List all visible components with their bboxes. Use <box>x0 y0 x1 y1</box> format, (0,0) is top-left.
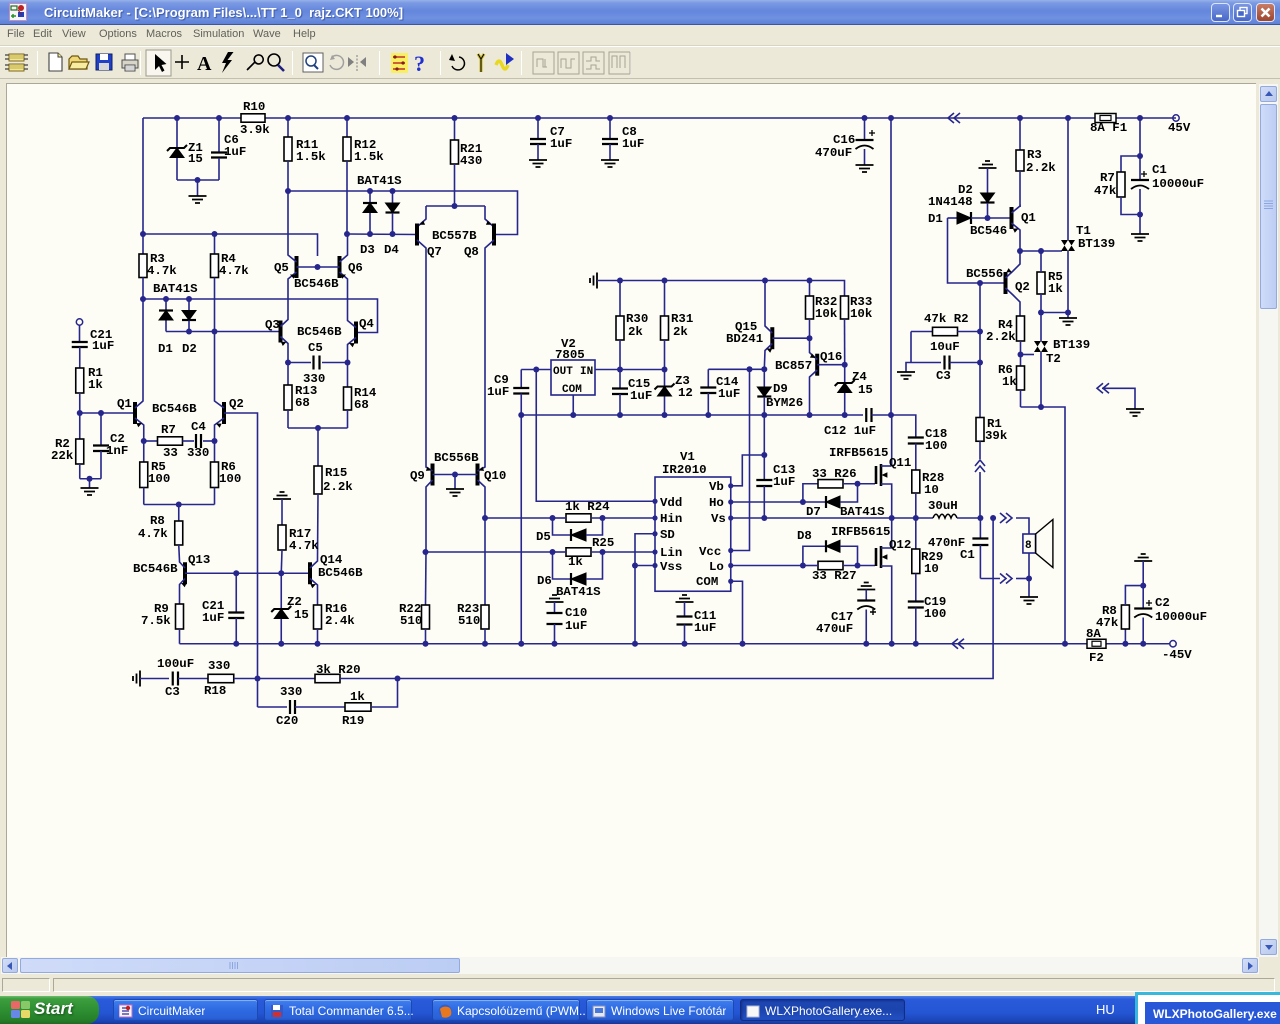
open folder <box>69 56 89 69</box>
node T2 gate <box>1018 352 1024 358</box>
wire +45V top rail <box>143 117 241 119</box>
resistor R8 4.7k <box>178 505 180 522</box>
wire Z1-C6 bottom node <box>177 179 219 181</box>
transistor Q2 BC556 right <box>980 282 1006 284</box>
capacitor C2 1nF <box>100 413 102 445</box>
wire Hin line <box>485 517 553 519</box>
capacitor C1 10000uF <box>1141 171 1147 177</box>
transistor Q4 BC546B <box>354 322 358 344</box>
capacitor C15 1uF <box>619 370 621 389</box>
resistor R14 68 <box>347 363 349 388</box>
resistor R21 430 <box>454 118 456 140</box>
capacitor C14 1uF <box>708 368 764 370</box>
ground above C2 <box>1134 554 1152 561</box>
capacitor C1 470nF output filter <box>979 518 981 539</box>
ground C3 input <box>133 671 140 687</box>
transistor Q3 BC546B <box>279 321 283 343</box>
wire C9 column down <box>520 415 522 644</box>
diode D9 BYM26 <box>763 369 765 387</box>
capacitor C11 1uF <box>676 595 694 602</box>
speaker 8 ohm <box>1023 534 1036 553</box>
resistor R29 10 <box>915 518 917 549</box>
ground C1 <box>1139 215 1141 235</box>
zener Z2 15 <box>280 573 282 609</box>
wire speaker bottom link <box>980 578 1000 580</box>
resistor R23 510 <box>484 518 486 605</box>
wire V2 COM <box>572 395 574 415</box>
resistor R26 33 <box>803 484 818 502</box>
wire rail y=234 right segment <box>347 233 417 236</box>
capacitor C6 1uF <box>218 118 220 152</box>
terminal -45V <box>1170 641 1176 647</box>
resistor R7 47k <box>1139 118 1141 156</box>
lightning <box>222 52 234 73</box>
wire Q9/Q10 base ground <box>433 474 478 476</box>
4 waveform buttons (grayed) <box>533 52 630 74</box>
ground below Z1/C6 <box>197 180 199 196</box>
transistor Q13 BC546B <box>183 562 187 584</box>
wire V2 OUT line <box>521 369 551 371</box>
zener Z1 15 <box>176 118 178 148</box>
new doc <box>49 53 62 71</box>
wire Q2 base loop <box>948 218 981 283</box>
resistor R9 7.5k <box>176 604 184 629</box>
IC V1 IR2010 <box>655 477 731 591</box>
resistor R31 2k <box>664 281 666 317</box>
inductor 30uH <box>933 514 957 518</box>
wire +45V feed to Q11 drain <box>890 118 892 415</box>
diode D2 1N4148 <box>987 168 989 193</box>
resistor R10 3.9k <box>241 114 265 122</box>
resistor R7 33 emitter <box>144 440 158 442</box>
transistor Q1 BC546B input <box>133 402 137 424</box>
diode D6 BAT41S <box>553 552 572 579</box>
wire link marker on -45V rail <box>952 639 964 649</box>
wire Ho line <box>731 501 803 503</box>
print <box>122 54 138 71</box>
browse chip icon <box>5 54 28 71</box>
diode D3 BAT41S <box>369 191 371 203</box>
transistor Q14 BC546B <box>308 562 312 584</box>
capacitor C13 1uF bootstrap <box>763 415 765 455</box>
wire Vcc feed from floating supply <box>731 369 750 550</box>
resistor R4 2.2k right <box>1019 315 1022 317</box>
wire Vb bootstrap <box>731 455 765 486</box>
wire V2 IN line <box>595 369 665 371</box>
resistor R1 1k <box>76 368 84 393</box>
ground input network <box>80 478 101 480</box>
resistor R33 10k <box>841 296 849 319</box>
capacitor C17 470uF <box>857 583 875 590</box>
capacitor C16 470uF electrolytic <box>864 118 866 140</box>
transistor Q16 BC857 <box>809 338 811 350</box>
ground above D2 right <box>979 161 997 168</box>
capacitor C4 330 <box>183 440 195 442</box>
wire Lo line <box>731 565 803 567</box>
wire R5 T1 gnd <box>1041 312 1068 314</box>
resistor R6 1k right <box>1020 355 1022 367</box>
capacitor C8 1uF <box>609 118 611 139</box>
run wave <box>496 61 508 69</box>
wire SD to Vss <box>635 534 655 566</box>
terminal input <box>76 319 82 325</box>
svg-text:A: A <box>197 53 212 75</box>
mirror <box>356 55 358 71</box>
transistor Q6 BC546B <box>338 256 342 278</box>
diode D4 BAT41S <box>392 191 394 203</box>
wire Vdd feed <box>536 370 655 502</box>
resistor R28 10 <box>915 444 917 471</box>
wire Q1 emitter node <box>1017 248 1023 254</box>
resistor R16 2.4k <box>314 605 322 629</box>
transistor Q1 BC546 right <box>988 217 1012 219</box>
transistor Q9 BC556B <box>431 464 435 486</box>
diode D1 BAT41S <box>165 299 167 311</box>
transistor Q2 BC546B input <box>222 402 226 424</box>
wire x=143 to Q1 collector <box>142 299 144 400</box>
resistor R5 100 <box>143 441 145 462</box>
resistor R5 1k right <box>1037 272 1045 294</box>
wire Q7/Q8 emitter rail <box>426 205 485 207</box>
resistor R3 2.2k right <box>1019 118 1021 150</box>
diode D5 BAT41S <box>553 518 572 535</box>
magnifier <box>268 54 280 66</box>
resistor R32 10k <box>809 281 811 297</box>
triac T1 BT139 <box>1067 118 1069 240</box>
wire COM pin <box>731 581 743 644</box>
wire T2 output to -45V rail <box>1021 407 1066 644</box>
node Q1 base <box>80 412 135 414</box>
wire Q3 base line y=331.5 <box>166 331 281 333</box>
zener Z4 15 <box>844 365 846 383</box>
link ground stub right <box>1097 383 1109 393</box>
capacitor C20 330 <box>257 679 259 708</box>
transistor Q15 BD241 <box>764 281 766 326</box>
transistor Q5 BC546B <box>295 256 299 278</box>
resistor R8 47k bottom <box>1124 629 1126 644</box>
wire Vs switch node line <box>731 517 933 519</box>
wire bias rail y=299 <box>143 299 378 333</box>
wire 0V rail <box>597 281 845 297</box>
resistor R27 33 <box>818 561 843 569</box>
resistor R17 4.7k <box>281 499 283 525</box>
wire Q13 Q14 base line <box>185 572 310 574</box>
capacitor C19 100 snubber <box>915 574 917 602</box>
capacitor C2 10000uF <box>1142 561 1144 586</box>
selection arrow (pressed) <box>146 50 171 76</box>
plus <box>175 55 189 69</box>
wire R1 39k column <box>979 283 981 441</box>
terminal 45V <box>1173 115 1179 121</box>
diode D1 1N4148 <box>948 217 958 219</box>
resistor R15 2.2k <box>317 428 319 466</box>
undo <box>452 57 464 70</box>
svg-text:?: ? <box>414 51 425 76</box>
ground above R17 <box>273 492 291 499</box>
resistor R6 100 <box>214 441 216 462</box>
wire rail y=191 <box>288 191 518 235</box>
wrench yellow <box>478 54 484 72</box>
wire Vss line <box>635 565 655 567</box>
resistor R25 1k <box>566 548 591 556</box>
transistor Q8 BC557B <box>492 224 496 246</box>
wire left bus x=143 <box>142 118 144 254</box>
capacitor C7 1uF <box>537 118 539 139</box>
capacitor C10 1uF <box>546 595 564 602</box>
resistor R22 510 <box>425 552 428 605</box>
capacitor C12 1uF <box>866 408 871 422</box>
probe <box>247 55 263 70</box>
diode D2 BAT41S <box>188 299 190 311</box>
capacitor C21 1uF bias <box>235 573 237 612</box>
resistor R19 1k <box>345 703 371 711</box>
capacitor C3 10uF <box>911 362 941 364</box>
wire floating Vs rail <box>521 414 863 416</box>
rotate (gray) <box>330 55 343 69</box>
zoom doc <box>303 53 323 72</box>
wire R4 column <box>214 234 216 254</box>
wire link marker on +45V rail <box>948 113 960 123</box>
transistor Q10 BC556B <box>476 464 480 486</box>
resistor R11 1.5k <box>287 118 289 137</box>
capacitor C21 1uF input <box>72 342 88 347</box>
transistor Q7 BC557B <box>415 224 419 246</box>
ground R2 C3 node <box>906 363 911 373</box>
fuse F2 8A <box>1087 639 1106 648</box>
resistor R3 4.7k <box>139 254 147 278</box>
wire R13-R14 bottom <box>288 427 348 429</box>
resistor R1 39k <box>976 418 984 442</box>
wire speaker top link <box>1000 513 1012 523</box>
regulator V2 7805 <box>551 360 595 395</box>
link arrow up <box>979 441 981 459</box>
save floppy <box>96 54 112 70</box>
wire -45V bottom rail <box>180 643 1171 645</box>
transistor Q12 IRFB5615 MOSFET <box>875 548 878 566</box>
resistor R13 68 <box>287 363 289 386</box>
capacitor C18 100 snubber <box>891 415 916 438</box>
transistor Q11 IRFB5615 MOSFET <box>875 466 878 484</box>
resistor R20 3k <box>315 674 340 682</box>
resistor R18 330 <box>208 674 234 682</box>
diode D7 BAT41S <box>803 501 826 503</box>
resistor R30 2k <box>619 281 621 317</box>
ground speaker <box>1028 579 1030 598</box>
capacitor C5 330 <box>288 362 311 364</box>
digital option icon <box>391 53 408 73</box>
zener Z3 12 <box>664 370 666 387</box>
capacitor C3 100uF <box>140 678 169 680</box>
diode D8 BAT41S <box>803 546 826 565</box>
triac T2 BT139 <box>1040 313 1042 342</box>
wire emitter resistor bottoms <box>144 504 215 506</box>
resistor R4 4.7k <box>211 254 219 278</box>
ground 0V rail <box>590 273 597 289</box>
resistor R12 1.5k <box>346 118 348 137</box>
capacitor C9 1uF <box>520 370 522 389</box>
fuse F1 8A <box>1095 114 1116 123</box>
wire Lin line <box>426 551 553 553</box>
resistor R24 1k <box>566 514 591 522</box>
resistor R2 22k <box>79 413 81 439</box>
wire bias rail y=234 left segment <box>143 234 318 256</box>
